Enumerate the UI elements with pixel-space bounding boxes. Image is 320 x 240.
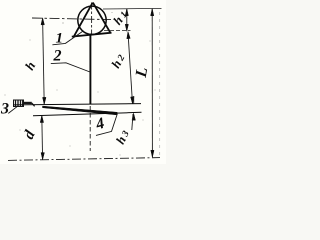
svg-text:3: 3 (0, 101, 9, 118)
label h2 (109, 51, 128, 70)
ball bottom extension (dashed) (104, 30, 131, 32)
dim d arrow down (41, 153, 44, 160)
svg-text:2: 2 (53, 48, 62, 65)
top extension line (103, 7, 162, 10)
label h3 (113, 128, 132, 147)
dim h1 arrow up (125, 9, 128, 16)
dim h1 line (126, 9, 128, 31)
baseline (dash-dot ground line) (8, 158, 160, 161)
leader 4 (96, 114, 117, 135)
ball 1 (circle) (78, 6, 106, 34)
cone (triangle) (72, 3, 112, 37)
dim h line (43, 18, 45, 104)
dim h3 upper arrow (points down at reference line) (133, 96, 135, 104)
dim d line (41, 116, 44, 160)
dim h2 line (128, 33, 133, 104)
rod centerline continuation (dashed) (89, 106, 91, 151)
label h1 (110, 8, 130, 28)
centerline horizontal through ball (32, 18, 111, 20)
plate 4 (tilted blade) (43, 106, 118, 115)
leader 3 (8, 106, 17, 113)
centerline vertical through ball (91, 3, 93, 35)
dim h arrow down (43, 97, 46, 104)
scan edge (faint dashed border at right) (159, 12, 161, 155)
dim L line (151, 9, 153, 157)
leader 1 (52, 31, 83, 45)
dim h3 lower arrow (points up at displaced line) (132, 113, 135, 120)
leader 2 (51, 63, 90, 72)
dim L arrow down (151, 150, 154, 157)
displaced line (lower) (33, 112, 142, 115)
dim h arrow up (41, 18, 44, 25)
dim L arrow up (151, 9, 154, 16)
dim d arrow up (40, 116, 43, 123)
scan specks (4, 12, 155, 156)
support 3 (hatched block) (14, 100, 35, 107)
dim h2 arrow up (127, 32, 130, 39)
reference line (upper) (14, 104, 142, 105)
dim h2 arrow down (131, 97, 134, 104)
rod 2 (89, 34, 91, 105)
dim h1 arrow down (125, 24, 128, 31)
